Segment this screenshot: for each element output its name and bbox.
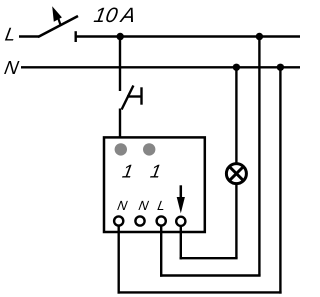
wire: N bus from label to right edge — [21, 66, 300, 68]
terminal 4 (output) — [176, 217, 185, 226]
wire: middle loop riser to L bus — [258, 37, 260, 276]
output arrow: head — [177, 197, 185, 213]
wire: drop from L bus to push-button — [119, 37, 121, 92]
lamp E1: cross stroke 1 — [229, 167, 243, 181]
junction dot: L bus to middle loop — [256, 33, 263, 40]
junction dot: N bus to lamp — [233, 64, 240, 71]
circuit breaker: left lead wire — [19, 35, 39, 37]
wire: outer loop riser to N bus — [279, 67, 281, 293]
push-button S1: actuator bar — [140, 87, 142, 104]
wire: L bus from breaker to right edge — [75, 35, 301, 37]
wire: push-button to timer box — [119, 109, 121, 138]
lamp E1: cross stroke 2 — [229, 167, 243, 181]
wire: middle loop bottom — [160, 274, 261, 276]
wire: inner loop riser to lamp — [235, 184, 237, 258]
lamp E1: bulb circle — [226, 164, 246, 184]
junction dot: L bus to push-button — [117, 33, 124, 40]
circuit breaker: actuator arrow shaft — [57, 14, 61, 26]
terminal 3 (L) — [157, 216, 166, 225]
timer unit U1: enclosure box — [104, 137, 205, 232]
wire: outer loop bottom — [118, 291, 282, 293]
terminal 1 (N) — [114, 216, 123, 225]
wire: lamp to N bus — [235, 67, 237, 163]
wire: inner loop bottom — [180, 257, 238, 259]
indicator LED 2 (gray) — [143, 143, 155, 155]
output arrow: shaft — [180, 185, 183, 203]
circuit breaker: actuator arrow head — [52, 6, 62, 21]
wire: terminal 3 down — [160, 226, 162, 277]
svg-text:10 A: 10 A — [92, 4, 137, 27]
terminal 2 (N) — [135, 216, 144, 225]
push-button S1: blade — [122, 86, 134, 110]
wire: terminal 4 down — [180, 226, 182, 260]
circuit breaker: fixed contact T-bar — [74, 31, 76, 42]
wire: terminal 1 down — [117, 226, 119, 294]
circuit breaker: switch blade — [38, 16, 78, 37]
junction dot: N bus to outer loop — [277, 64, 284, 71]
indicator LED 1 (gray) — [115, 143, 127, 155]
push-button S1: actuator link — [127, 95, 142, 97]
